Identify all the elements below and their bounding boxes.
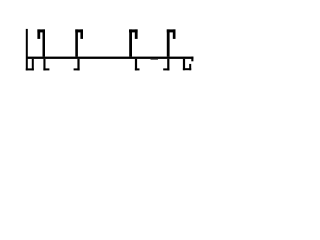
hook 1 stem bbox=[43, 29, 46, 56]
right end pocket left wall bbox=[183, 59, 185, 70]
hook 2 foot tab (points left) bbox=[74, 68, 80, 70]
hook 1 foot vertical bbox=[43, 59, 45, 71]
hook 1 top bar bbox=[37, 29, 45, 32]
hook 4 top bar bbox=[167, 29, 176, 32]
hook 1 left lip bbox=[37, 29, 40, 39]
hook 3 foot vertical bbox=[135, 59, 137, 71]
hook 2 top bar bbox=[75, 29, 83, 32]
hook 3 right lip bbox=[135, 29, 138, 39]
left end pocket bottom bbox=[26, 68, 34, 70]
right end pocket bottom bbox=[183, 68, 191, 70]
hook 3 stem bbox=[129, 29, 132, 56]
hook 4 right lip bbox=[173, 29, 176, 39]
hook 4 stem bbox=[167, 29, 170, 56]
profile rail cross-section drawing bbox=[0, 0, 216, 103]
left end upright wall bbox=[26, 29, 28, 71]
right end lip (down from rail end) bbox=[191, 57, 193, 62]
hook 4 foot tab (points left) bbox=[163, 68, 169, 70]
base rail web (horizontal line) bbox=[26, 57, 193, 59]
hook 4 foot vertical bbox=[167, 59, 169, 71]
base rail thickened seam segment bbox=[151, 59, 159, 60]
hook 2 stem bbox=[75, 29, 78, 56]
left end pocket right wall bbox=[32, 59, 34, 71]
hook 3 top bar bbox=[129, 29, 138, 32]
hook 2 foot vertical bbox=[77, 59, 79, 71]
hook 1 foot tab (points right) bbox=[43, 68, 49, 70]
right end pocket right wall bbox=[189, 64, 191, 70]
hook 2 right lip bbox=[80, 29, 83, 39]
hook 3 foot tab (points right) bbox=[135, 68, 140, 70]
